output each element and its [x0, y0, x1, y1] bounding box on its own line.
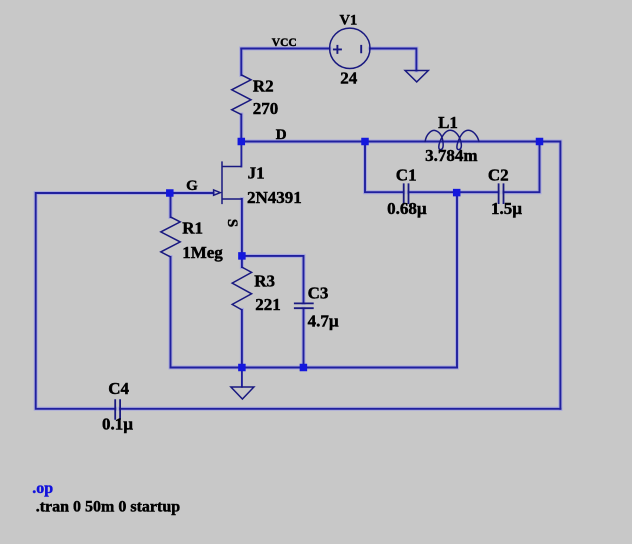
- svg-text:V1: V1: [340, 13, 358, 29]
- svg-text:1.5µ: 1.5µ: [491, 199, 522, 218]
- svg-text:1Meg: 1Meg: [182, 243, 223, 262]
- svg-text:4.7µ: 4.7µ: [308, 312, 339, 331]
- svg-text:C2: C2: [488, 165, 509, 184]
- svg-text:R1: R1: [182, 218, 203, 237]
- svg-text:24: 24: [340, 69, 358, 88]
- svg-text:270: 270: [253, 99, 278, 118]
- svg-text:G: G: [186, 178, 198, 194]
- svg-text:3.784m: 3.784m: [425, 146, 477, 165]
- svg-text:.tran 0 50m 0 startup: .tran 0 50m 0 startup: [36, 499, 181, 516]
- svg-text:.op: .op: [32, 480, 53, 497]
- svg-text:D: D: [276, 127, 287, 143]
- svg-text:R2: R2: [253, 76, 274, 95]
- svg-text:221: 221: [255, 295, 280, 314]
- svg-text:2N4391: 2N4391: [247, 188, 302, 207]
- svg-text:C3: C3: [308, 284, 329, 303]
- svg-text:J1: J1: [248, 163, 265, 182]
- svg-text:L1: L1: [438, 113, 458, 132]
- svg-text:VCC: VCC: [272, 37, 297, 49]
- svg-text:S: S: [224, 219, 240, 227]
- svg-text:0.1µ: 0.1µ: [102, 415, 133, 434]
- svg-text:C4: C4: [108, 379, 129, 398]
- svg-text:R3: R3: [254, 272, 275, 291]
- svg-text:C1: C1: [396, 165, 417, 184]
- svg-text:0.68µ: 0.68µ: [387, 199, 427, 218]
